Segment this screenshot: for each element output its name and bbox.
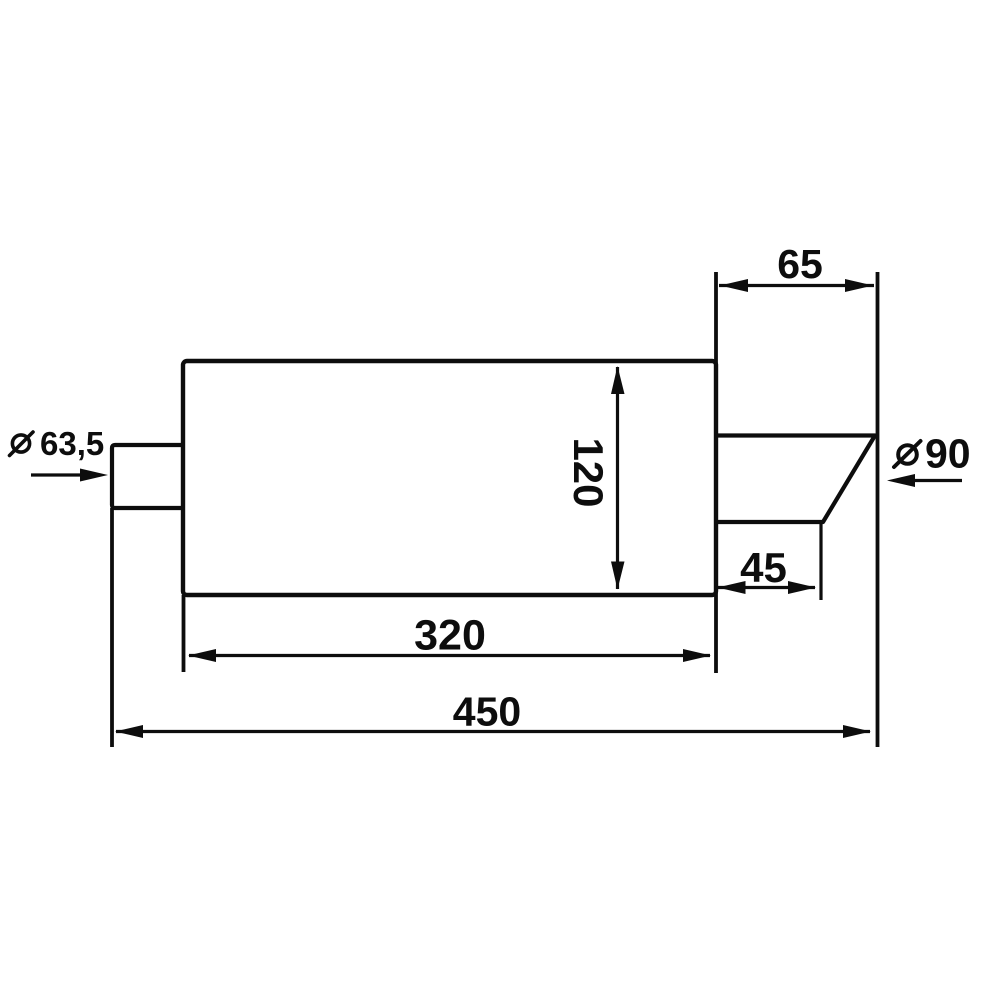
dimension line 45 — [718, 586, 815, 589]
inlet pipe outline — [112, 445, 183, 508]
extension line below body left edge — [182, 595, 186, 672]
arrowhead 65 right — [845, 279, 873, 292]
svg-text:65: 65 — [777, 241, 823, 287]
muffler body outline — [183, 361, 716, 595]
tail pipe outline — [716, 436, 875, 523]
arrowhead 450 left — [115, 725, 143, 738]
dimension line 65 — [719, 284, 874, 287]
diameter symbol of 63,5 — [12, 435, 29, 452]
arrowhead 45 right — [788, 581, 816, 594]
dimension line 320 — [189, 654, 710, 657]
extension line left of 450 (below inlet pipe) — [110, 508, 114, 747]
arrowhead 320 right — [683, 649, 711, 662]
svg-text:320: 320 — [414, 612, 486, 660]
extension line at tail pipe end (x=877.5) — [876, 272, 880, 747]
arrowhead 320 left — [188, 649, 216, 662]
leader arrow 90 — [905, 479, 962, 482]
arrowhead 120 top — [611, 366, 625, 394]
svg-text:63,5: 63,5 — [40, 425, 104, 462]
diameter symbol of 90 — [898, 445, 917, 464]
svg-text:120: 120 — [565, 437, 612, 507]
arrowhead 45 left — [718, 581, 746, 594]
arrowhead 120 bottom — [611, 562, 625, 590]
svg-text:45: 45 — [740, 544, 787, 591]
arrowhead 450 right — [843, 725, 871, 738]
extension line at body right edge (x=716) — [714, 272, 718, 673]
dimension line 120 — [616, 367, 619, 589]
leader arrow 63,5 — [31, 473, 90, 476]
svg-text:450: 450 — [453, 689, 521, 735]
extension line below tail pipe bottom corner (x=821) — [819, 524, 822, 600]
arrowhead 65 left — [720, 279, 748, 292]
dimension line 450 — [116, 730, 870, 733]
svg-text:90: 90 — [925, 431, 971, 477]
